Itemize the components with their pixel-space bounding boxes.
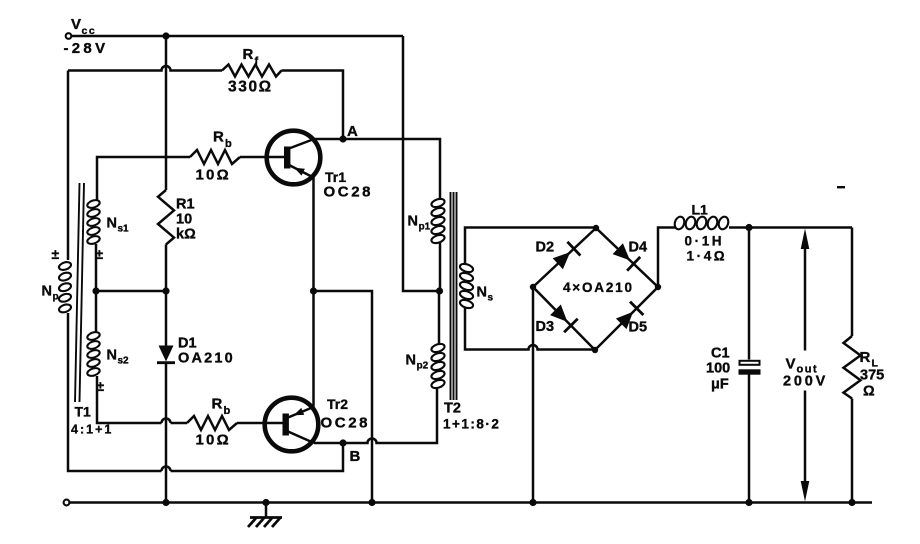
junction dot: rail at bias chain: [162, 499, 169, 506]
winding Np1 of T2 (5 loops): [430, 197, 445, 208]
svg-text:A: A: [347, 123, 358, 140]
svg-text:Tr2: Tr2: [327, 396, 348, 412]
junction dot: C1 top node: [745, 224, 752, 231]
winding Ns2 of T1 (5 loops): [95, 291, 98, 333]
svg-text:R: R: [860, 349, 871, 366]
svg-text:OC28: OC28: [324, 184, 374, 201]
wire: bridge right corner up to L1: [658, 228, 675, 288]
svg-text:D5: D5: [629, 320, 648, 336]
svg-text:N: N: [107, 216, 117, 232]
terminal: ground rail open circle: [64, 500, 70, 506]
junction dot: bridge top corner: [593, 225, 599, 231]
T1 core: [75, 183, 84, 402]
wire: Vcc centre-tap drop x=403 to T2 centre tap: [403, 36, 437, 291]
winding Np2 of T2 (5 loops): [438, 291, 441, 345]
svg-text:±: ±: [52, 246, 60, 262]
wire: Rf row from Np top with hop over x=166: [68, 66, 222, 71]
svg-text:0·1H: 0·1H: [685, 234, 725, 249]
resistor Rf 330 ohm: [222, 65, 282, 77]
svg-text:1+1:8·2: 1+1:8·2: [443, 417, 500, 432]
transistor Tr2 OC28 circle: [265, 398, 319, 452]
svg-text:V: V: [71, 16, 81, 33]
Tr1 base bar: [284, 147, 290, 169]
svg-text:C1: C1: [711, 346, 730, 362]
terminal: Vcc open circle: [66, 33, 72, 39]
svg-text:μF: μF: [711, 377, 729, 393]
junction dot: Ns centre tap: [92, 287, 99, 294]
inductor L1 (5 loops): [673, 215, 686, 230]
capacitor C1 bottom plate: [739, 369, 761, 374]
svg-text:D3: D3: [536, 319, 555, 335]
wire: collector row through node A to T2 Np1: [314, 139, 440, 199]
svg-text:cc: cc: [82, 25, 97, 37]
wire: emitter node to ground drop x=372: [314, 291, 373, 503]
svg-text:±: ±: [96, 246, 104, 262]
svg-text:s1: s1: [118, 224, 130, 235]
bridge diamond: [533, 228, 658, 350]
wire: bridge left corner to ground rail: [532, 287, 535, 503]
svg-text:4×OA210: 4×OA210: [563, 280, 634, 295]
wire: L1 to output row: [729, 226, 852, 229]
wire: Np bottom across to node B with hop at x=166: [68, 313, 343, 471]
junction dot: rail at ground: [262, 499, 269, 506]
Vout 200V dimension arrow: [804, 247, 807, 483]
junction dot: rail at bridge minus: [529, 499, 536, 506]
svg-text:s2: s2: [118, 356, 130, 367]
resistor Rb top 10 ohm: [190, 150, 240, 164]
svg-text:D1: D1: [178, 336, 197, 352]
Tr1 emitter lead: [289, 165, 314, 178]
junction dot: rail at C1: [745, 499, 752, 506]
svg-text:V: V: [786, 356, 796, 373]
diode D4: [613, 243, 630, 260]
svg-text:L1: L1: [692, 202, 709, 218]
junction dot: bridge right corner: [655, 284, 661, 290]
svg-text:N: N: [408, 214, 418, 230]
svg-text:N: N: [107, 348, 117, 364]
diode D5: [616, 312, 633, 329]
wire: top Vcc rail: [72, 35, 404, 38]
svg-text:10: 10: [176, 212, 192, 228]
wire: Ns top to bridge top corner: [465, 228, 596, 265]
transistor Tr1 OC28 circle: [267, 131, 321, 185]
wire: C1 bottom lead: [748, 374, 751, 502]
hop: B return over x=166: [162, 467, 171, 472]
wire: Ns1 bottom to centre tap: [95, 244, 98, 291]
svg-text:330Ω: 330Ω: [228, 79, 273, 96]
diode D3: [550, 305, 567, 322]
svg-text:-28V: -28V: [64, 40, 109, 57]
svg-text:100: 100: [706, 361, 730, 377]
svg-text:4:1+1: 4:1+1: [71, 423, 113, 437]
svg-text:375: 375: [860, 368, 884, 384]
svg-text:10Ω: 10Ω: [196, 167, 231, 184]
junction dot: T2 centre tap: [436, 287, 443, 294]
svg-text:N: N: [477, 285, 487, 301]
svg-text:1·4Ω: 1·4Ω: [687, 249, 728, 264]
junction dot: R1-D1 junction: [162, 287, 169, 294]
Tr1 emitter arrow: [294, 168, 305, 176]
wire: RL bottom lead: [851, 399, 854, 503]
Tr2 collector lead: [288, 432, 314, 444]
svg-text:p1: p1: [419, 222, 431, 233]
stray scan mark: [837, 186, 845, 188]
winding Ns1 of T1 (5 loops): [86, 199, 100, 210]
junction dot: Vcc rail x=166: [162, 32, 169, 39]
svg-text:b: b: [224, 405, 231, 417]
wire: Ns2 bottom to base row 2 with hop at x=166: [97, 376, 187, 423]
wire: Rf right end down to node A: [282, 71, 344, 140]
wire: bias chain vertical x=166: [165, 36, 168, 190]
svg-text:N: N: [42, 284, 52, 300]
svg-text:T2: T2: [444, 401, 461, 417]
svg-text:kΩ: kΩ: [176, 227, 196, 243]
wire: node B row to T2 Np2 bottom with hop over x=372: [314, 389, 437, 443]
svg-text:B: B: [350, 448, 361, 465]
svg-text:R: R: [212, 396, 223, 413]
wire: RL top lead: [851, 228, 854, 337]
wire: Rb to Tr1 base: [240, 156, 284, 159]
wire: left vertical x=68 to Np: [67, 71, 70, 261]
wire: base row 1 from Ns1 top: [97, 157, 190, 200]
junction dot: rail at RL: [848, 499, 855, 506]
hop: base row 2 over x=166: [162, 419, 171, 424]
diode D1 OA210 (cathode down): [159, 346, 174, 362]
svg-text:b: b: [225, 138, 232, 150]
svg-text:200V: 200V: [783, 374, 828, 390]
resistor RL 375 ohm: [844, 336, 861, 399]
wire: Np1 bottom to centre tap: [439, 243, 442, 291]
T2 core: [451, 192, 457, 400]
svg-text:R1: R1: [176, 197, 195, 213]
junction dot: emitter node: [310, 287, 317, 294]
svg-text:OC28: OC28: [321, 415, 371, 432]
winding Np of T1 (5 loops): [58, 261, 72, 272]
node A junction dot: [339, 135, 346, 142]
capacitor C1 top plate: [740, 361, 760, 365]
ground symbol: [265, 503, 268, 518]
svg-text:OA210: OA210: [178, 351, 235, 367]
junction dot: bridge left corner: [530, 284, 536, 290]
svg-text:R: R: [213, 129, 224, 146]
wire: C1 top lead: [748, 228, 751, 360]
junction dot: bridge bottom corner: [592, 347, 598, 353]
Tr2 base bar: [283, 414, 289, 436]
Tr1 collector lead: [289, 139, 314, 149]
svg-text:p: p: [53, 292, 59, 303]
Tr2 emitter lead: [288, 407, 314, 418]
Tr2 emitter arrow: [294, 408, 305, 415]
svg-text:Ω: Ω: [863, 384, 875, 400]
svg-text:±: ±: [97, 378, 105, 394]
svg-text:D4: D4: [629, 240, 648, 256]
svg-text:p2: p2: [417, 361, 429, 372]
junction dot: rail at emitter return: [368, 499, 375, 506]
wire: Rb to Tr2 base: [237, 422, 283, 425]
wire: centre tap row to R1-D1 junction: [96, 290, 166, 293]
svg-text:f: f: [255, 56, 259, 68]
svg-text:D2: D2: [536, 240, 555, 256]
wire: Ns bottom to bridge bottom corner with hop over x=533: [465, 308, 595, 350]
junction dot: node B: [339, 439, 346, 446]
resistor R1 10k: [158, 190, 174, 244]
winding Ns of T2 (5 loops): [459, 262, 474, 273]
svg-text:N: N: [406, 353, 416, 369]
resistor Rb bottom 10 ohm: [187, 416, 237, 430]
svg-text:s: s: [488, 293, 494, 304]
svg-text:R: R: [243, 46, 254, 63]
wire: ground rail: [70, 501, 873, 504]
wire: common emitter vertical: [312, 177, 315, 407]
svg-text:10Ω: 10Ω: [196, 432, 231, 449]
diode D2: [553, 252, 571, 269]
svg-text:T1: T1: [75, 404, 92, 420]
